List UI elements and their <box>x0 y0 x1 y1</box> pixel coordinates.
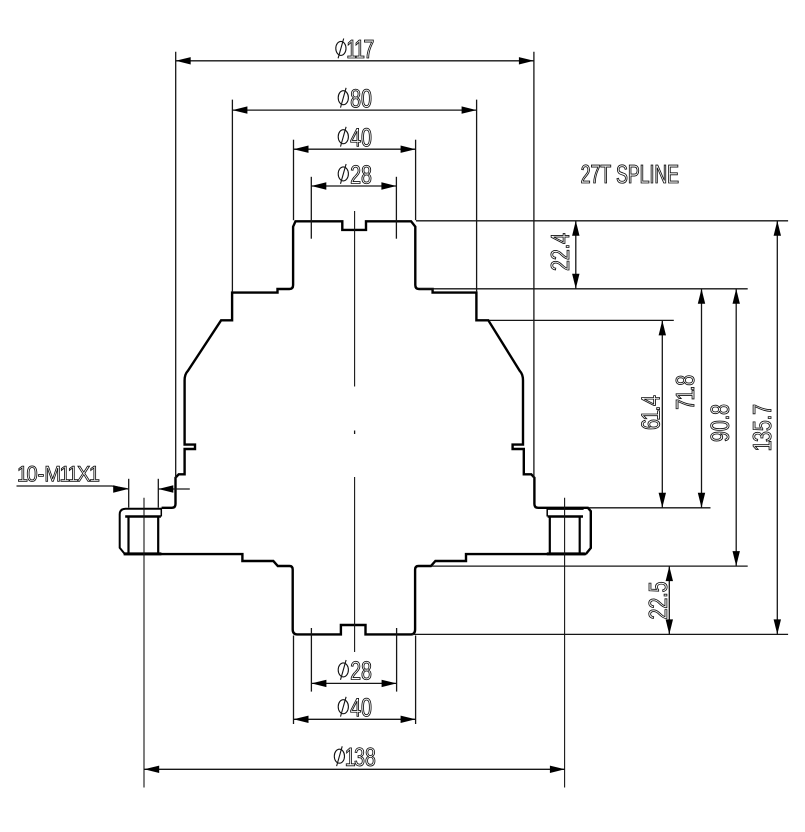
label 22.4 <box>551 234 569 270</box>
bottom face extension line (135.7 / 22.5) <box>412 633 788 635</box>
label 135.7 <box>753 405 771 450</box>
Ø40 bottom dimension line <box>294 718 416 720</box>
left stud centerline / Ø138 extension <box>143 498 145 788</box>
label 27T SPLINE <box>582 165 679 183</box>
Ø28 top dimension line <box>311 185 396 187</box>
flange top extension line (61.4 / 71.8) <box>589 507 711 509</box>
top face extension line (datum for 22.4 / 135.7) <box>416 220 788 222</box>
Ø40 bottom left extension line <box>293 636 295 725</box>
label Ø28 top <box>338 167 348 181</box>
label 90.8 <box>711 405 729 441</box>
label Ø40 top <box>338 130 348 144</box>
M11 thread right extension line <box>157 479 159 508</box>
71.8 dimension line <box>701 289 703 508</box>
label Ø80 <box>338 91 348 105</box>
label Ø117 <box>336 41 346 55</box>
label Ø28 bottom <box>338 663 348 677</box>
Ø40 top dimension line <box>294 148 416 150</box>
label Ø40 bottom <box>338 700 348 714</box>
left stud bottom face <box>124 552 162 555</box>
label Ø138 <box>334 749 344 763</box>
M11 thread left extension line <box>128 479 130 508</box>
step extension line (61.4 datum) <box>490 319 674 321</box>
left stud body right side <box>157 517 159 553</box>
right stud washer bottom face <box>548 515 583 518</box>
Ø28 bottom dimension line <box>311 682 396 684</box>
label 22.5 <box>649 582 667 618</box>
Ø28 bottom right extension line <box>396 628 398 692</box>
label 61.4 <box>641 396 659 429</box>
Ø28 top right extension line <box>395 177 397 239</box>
Ø80 right extension line <box>476 100 478 292</box>
right stud washer top <box>547 508 583 510</box>
left stud body left side <box>127 517 129 553</box>
10-M11X1 leader arrow (right-pointing) <box>113 485 128 492</box>
right stud body right side <box>579 517 581 553</box>
right stud bottom face <box>547 552 585 555</box>
hub lower outline: flange bottom, steps, Ø40 bottom boss with notch <box>124 554 586 634</box>
Ø80 dimension line <box>232 109 476 111</box>
M11 dimension tail line <box>158 488 190 490</box>
label 10-M11X1 <box>18 466 99 482</box>
hub upper body outline with Ø40 top boss, spline notch, Ø80 step, Ø117 flange edge <box>162 221 591 554</box>
Ø28 top left extension line <box>310 177 312 239</box>
flange step extension line (90.8 / 22.5) <box>432 565 748 567</box>
Ø138 dimension line <box>144 768 565 770</box>
135.7 dimension line <box>776 221 778 635</box>
main centerline dot <box>354 431 356 435</box>
Ø117 left extension line <box>175 52 177 478</box>
left stud washer bottom face <box>125 515 161 518</box>
Ø40 top right extension line <box>415 140 417 221</box>
Ø117 dimension line <box>176 60 534 62</box>
right stud washer left edge <box>546 508 548 517</box>
Ø28 bottom left extension line <box>310 628 312 692</box>
Ø80 left extension line <box>231 100 233 292</box>
Ø80 shoulder extension line (22.4 / 71.8 / 90.8) <box>420 288 748 290</box>
90.8 dimension line <box>735 289 737 566</box>
right stud body left side <box>549 517 551 553</box>
left stud: washer top and outer chamfered profile <box>120 509 162 554</box>
main vertical centerline lower dash <box>354 477 356 652</box>
Ø40 top left extension line <box>293 140 295 221</box>
right stud centerline / Ø138 extension <box>564 498 566 788</box>
Ø117 right extension line <box>533 52 535 478</box>
22.4 dimension line <box>575 221 577 289</box>
main vertical centerline upper dash <box>354 211 356 387</box>
10-M11X1 leader underline <box>17 486 129 489</box>
22.5 dimension line <box>668 566 670 634</box>
M11 left-pointing arrow <box>158 485 173 492</box>
left stud washer right edge <box>160 508 162 517</box>
label 71.8 <box>676 376 694 409</box>
61.4 dimension line <box>661 320 663 507</box>
Ø40 bottom right extension line <box>415 636 417 725</box>
